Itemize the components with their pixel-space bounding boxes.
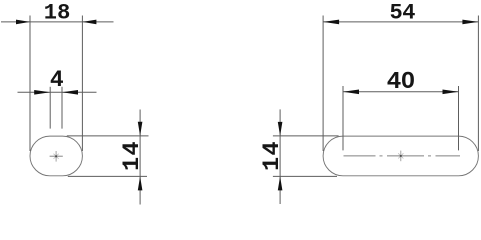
dimension 40 arrow left <box>343 90 359 95</box>
svg-text:18: 18 <box>44 1 71 26</box>
dimension 54 extension line right <box>477 16 479 152</box>
dimension 4 arrow left <box>34 90 50 95</box>
centerline left slot <box>50 155 63 157</box>
dimension 4 extension line right <box>61 87 63 129</box>
dimension 18 extension line right <box>81 16 83 152</box>
dimension 14 left: extension line bottom <box>68 175 147 177</box>
dimension 18 arrow left <box>16 20 30 25</box>
dimension 14 right: extension line bottom <box>273 175 337 177</box>
dimension 4 line <box>18 91 97 93</box>
dimension 14 left: dimension line <box>139 110 141 205</box>
svg-text:40: 40 <box>387 69 415 96</box>
dimension 40 line <box>343 91 459 93</box>
dimension 14 right: arrow bottom <box>278 176 283 190</box>
dimension 18 arrow right <box>82 20 96 25</box>
svg-text:54: 54 <box>389 1 415 26</box>
dimension 40 extension line left <box>342 86 344 150</box>
center mark left slot <box>54 151 59 162</box>
slot outline right <box>323 136 478 176</box>
svg-text:14: 14 <box>259 140 286 171</box>
dimension 54 line <box>323 21 478 23</box>
dimension 14 right: extension line top <box>273 135 339 137</box>
svg-text:14: 14 <box>119 140 146 171</box>
slot outline left <box>30 136 82 176</box>
dimension 14 left: arrow bottom <box>138 176 143 190</box>
center mark right slot <box>398 151 403 162</box>
dimension 18 extension line left <box>29 16 31 152</box>
dimension 54 arrow left <box>323 20 339 25</box>
dimension 4 arrow right <box>62 90 78 95</box>
svg-text:4: 4 <box>50 67 64 93</box>
dimension 14 right: arrow top <box>278 122 283 136</box>
dimension 14 left: arrow top <box>138 122 143 136</box>
centerline right slot (dash-dot) <box>344 155 461 157</box>
dimension 40 arrow right <box>443 90 459 95</box>
dimension 14 right: dimension line <box>279 109 281 204</box>
dimension 54 extension line left <box>322 16 324 152</box>
dimension 18 line <box>1 21 114 23</box>
dimension 14 left: extension line top <box>67 135 149 137</box>
dimension 40 extension line right <box>458 86 460 150</box>
dimension 54 arrow right <box>462 20 478 25</box>
dimension 4 extension line left <box>49 87 51 129</box>
